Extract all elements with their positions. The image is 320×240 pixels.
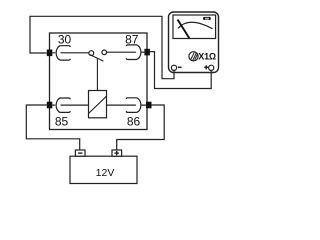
battery plus post	[112, 150, 122, 156]
node pin 86	[146, 102, 152, 109]
armature link wire	[96, 58, 98, 90]
svg-text:30: 30	[58, 33, 72, 47]
switch contact right pole	[102, 50, 107, 55]
spade terminal 85	[52, 98, 88, 112]
switch contact left pole	[89, 51, 94, 56]
node pin 85	[47, 102, 53, 109]
battery B1 body	[70, 156, 137, 183]
svg-text:12V: 12V	[96, 167, 115, 179]
meter scale face	[173, 15, 216, 39]
switch blade	[89, 54, 103, 61]
meter needle	[178, 20, 190, 39]
spade terminal 30	[52, 46, 89, 60]
meter plus terminal	[204, 66, 208, 68]
svg-text:86: 86	[127, 115, 141, 129]
spade terminal 86	[107, 98, 147, 113]
svg-text:85: 85	[55, 115, 69, 129]
wire meter minus to pin 30	[30, 16, 174, 78]
wire pin 85 to battery minus	[26, 105, 79, 150]
relay K1 body	[50, 33, 148, 130]
ohmmeter M1 case	[169, 12, 219, 73]
node pin 30	[47, 50, 53, 57]
coil	[89, 91, 107, 118]
wire meter plus to pin 87	[150, 52, 211, 89]
node pin 87	[144, 49, 150, 56]
infinity mark	[203, 17, 211, 20]
spade terminal 87	[107, 45, 145, 60]
battery minus post	[75, 150, 85, 156]
svg-text:X1Ω: X1Ω	[198, 52, 216, 62]
range dial X1 ohm	[189, 52, 198, 61]
wire pin 86 to battery plus	[117, 105, 165, 150]
meter minus terminal	[171, 65, 176, 70]
meter scale arc	[178, 22, 213, 29]
